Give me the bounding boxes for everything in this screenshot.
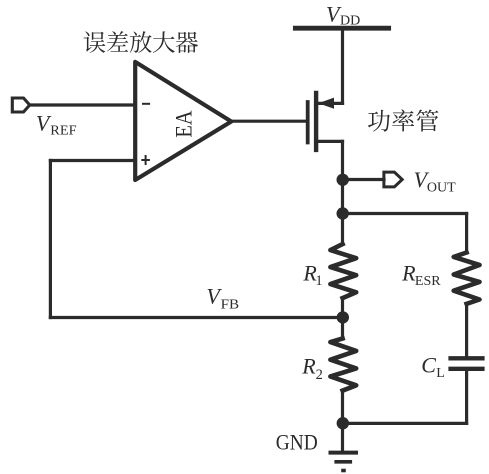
transistor M1 source lead <box>318 102 342 105</box>
svg-text:C: C <box>421 353 436 378</box>
wire: R1 to VFB node <box>341 298 344 339</box>
wire: VOUT stub <box>343 178 385 181</box>
svg-text:OUT: OUT <box>427 181 456 196</box>
svg-text:R: R <box>401 261 416 286</box>
VDD supply rail <box>295 26 388 31</box>
transistor M1 drain lead <box>318 140 342 143</box>
svg-text:R: R <box>301 354 316 379</box>
op-amp plus input sign <box>141 159 150 161</box>
node GND dot <box>337 417 349 429</box>
svg-text:1: 1 <box>315 273 322 289</box>
svg-text:DD: DD <box>340 14 360 29</box>
transistor M1 channel bar <box>314 93 318 150</box>
capacitor CL top plate <box>451 356 483 360</box>
resistor R2 <box>330 339 356 391</box>
svg-text:FB: FB <box>221 298 240 313</box>
svg-text:2: 2 <box>316 367 323 383</box>
svg-text:EA: EA <box>172 110 197 138</box>
ground bar 3 <box>343 469 344 473</box>
wire: feedback to plus input (horizontal) <box>50 159 135 162</box>
ground stem <box>341 423 344 450</box>
ground bar 2 <box>336 460 350 464</box>
wire: op-amp output to gate <box>231 120 305 123</box>
wire: right branch top vertical <box>465 214 468 253</box>
wire: output node down to node B <box>341 180 344 245</box>
resistor RESR <box>454 253 480 304</box>
svg-text:L: L <box>436 366 445 381</box>
capacitor CL bottom plate <box>451 367 483 371</box>
wire: feedback left vertical <box>49 161 52 318</box>
wire: CL to bottom wire <box>465 371 468 424</box>
label: power transistor (CJK) <box>368 110 390 132</box>
wire: RESR to CL <box>465 304 468 357</box>
wire: R2 to ground node <box>341 391 344 424</box>
wire: ground node to right branch (bottom) <box>343 422 467 425</box>
transistor M1 (PMOS pass device) gate bar <box>306 102 310 143</box>
node B dot <box>337 207 349 219</box>
op-amp EA (error amplifier) triangle <box>135 62 231 180</box>
svg-text:ESR: ESR <box>415 274 441 289</box>
op-amp minus input sign <box>142 103 150 105</box>
resistor R1 <box>330 244 356 298</box>
ground bar 1 <box>331 451 357 455</box>
wire: VDD rail to PMOS source <box>341 28 344 103</box>
wire: drain down to output node <box>341 141 344 179</box>
wire: VREF pin to op-amp minus input <box>30 103 136 106</box>
label: error amplifier (CJK) <box>84 31 106 52</box>
svg-text:REF: REF <box>50 123 77 138</box>
wire: node B to right branch (top) <box>343 212 467 215</box>
node A: VOUT node dot <box>337 174 349 186</box>
output pin VOUT terminal <box>384 172 402 187</box>
svg-text:GND: GND <box>276 429 318 454</box>
input pin VREF terminal <box>12 98 29 112</box>
node VFB dot <box>337 311 349 323</box>
wire: VFB horizontal feedback <box>50 316 342 319</box>
transistor M1 source arrow <box>318 98 334 109</box>
